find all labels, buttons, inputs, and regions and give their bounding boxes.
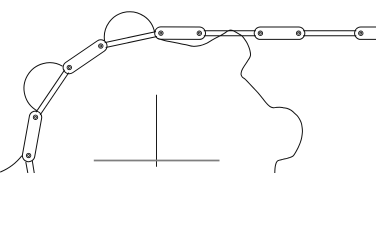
- link capsule L2 pins P3-P4: [69, 46, 101, 68]
- dome arc over bar P4-P5 (top-left): [104, 12, 154, 41]
- pin P6: [197, 31, 201, 35]
- centerline vertical: [156, 95, 158, 167]
- dome arc over bar P1-P0 (bottom-left): [0, 156, 22, 172]
- pin P4: [99, 44, 103, 48]
- pin P3: [67, 65, 71, 69]
- link capsule L5 pins P9-P10 (cut at right edge): [361, 27, 376, 40]
- pin P8: [296, 31, 300, 35]
- dome arc over bar P2-P3 (left): [24, 63, 63, 111]
- bar link P8-P9: [303, 31, 356, 36]
- pin P2: [33, 115, 37, 119]
- centerline horizontal (gray): [94, 160, 220, 162]
- link capsule L1 pins P1-P2: [29, 117, 36, 155]
- pin P5: [159, 31, 163, 35]
- bar link P6-P7: [204, 31, 256, 36]
- pin P9: [359, 31, 363, 35]
- bar link P2-P3: [36, 70, 69, 115]
- link capsule L3 pins P5-P6: [161, 26, 199, 40]
- freeform spline curve: [157, 30, 302, 173]
- chain drawing: [0, 0, 376, 173]
- link capsule L4 pins P7-P8: [260, 27, 298, 40]
- bar link P4-P5: [105, 32, 157, 48]
- pin P7: [258, 31, 262, 35]
- pin P1: [26, 153, 30, 157]
- bar link P1-P0 (exits bottom edge): [26, 161, 35, 174]
